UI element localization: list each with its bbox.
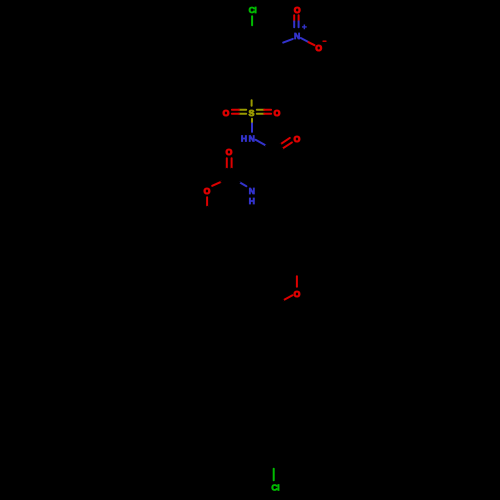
svg-text:O: O — [274, 108, 281, 118]
bond carbamate C to ester O11, O half — [212, 182, 221, 186]
bond carbamate C to ester O11, carbon half — [221, 180, 229, 182]
bond CH2 to ring B top — [297, 190, 299, 211]
bond ring CC4 to Cl14, carbon half — [273, 452, 275, 469]
bond ring CC4 to Cl14, chlorine half — [273, 469, 275, 480]
svg-text:N: N — [294, 31, 300, 41]
nitro N3=O2 double bond, O halves — [294, 15, 298, 21]
svg-text:Cl: Cl — [249, 5, 257, 15]
svg-text:+: + — [302, 22, 307, 32]
bond N3 to ring CA2, N half — [283, 39, 293, 43]
bond N12 to carbamate C, N half — [240, 182, 247, 186]
bond S5 to N8, S half — [251, 119, 253, 124]
amide C=O9 double bond, O halves — [281, 138, 292, 149]
bond O11 to methyl C, carbon half — [206, 207, 208, 223]
bond N8 to amide carbon, N half — [256, 140, 267, 146]
bond amide C to alpha C — [275, 154, 279, 182]
svg-text:N: N — [249, 186, 255, 196]
bond N8 to amide carbon, carbon half — [266, 146, 275, 154]
svg-text:O: O — [294, 134, 301, 144]
bond alpha C to N12, drawn dark — [258, 181, 279, 189]
ring C (4-chlorophenyl) carbon bonds, black on black — [250, 398, 297, 452]
bond O11 to methyl C, O half — [206, 197, 208, 207]
svg-text:O: O — [315, 43, 322, 53]
bond N3 to O4, N half — [301, 38, 308, 42]
svg-text:O: O — [223, 108, 230, 118]
sulfonyl S5=O7 double bond right, S halves — [257, 110, 264, 114]
bond ring CA4 to S5, S half — [251, 100, 253, 106]
bond N12 to carbamate C, carbon half — [229, 180, 239, 182]
svg-text:O: O — [226, 147, 233, 157]
svg-text:O: O — [294, 5, 301, 15]
ring A (4-chloro-3-nitrophenyl) carbon bonds, black on black — [229, 28, 283, 100]
svg-text:H: H — [241, 133, 247, 143]
svg-text:H: H — [249, 196, 255, 206]
charge minus on O4 — [323, 40, 326, 42]
bond O13 to CH2a, carbon half — [270, 300, 283, 306]
bond alpha C to benzylic CH2 — [279, 181, 299, 190]
carbamate C=O10 double bond, carbon halves — [227, 169, 232, 180]
carbamate C=O10 double bond, O halves — [227, 158, 232, 168]
alkyl chain CH2a-Cb-Cc-Cd carbon bonds — [269, 307, 291, 399]
bond S5 to N8, N half — [251, 123, 253, 131]
bond ring CB4 to O13, O half — [296, 276, 298, 286]
bond O13 to CH2a, O half — [283, 295, 292, 300]
sulfonyl S5=O6 double bond left, S halves — [239, 110, 246, 114]
amide C=O9 double bond, carbon halves — [275, 144, 282, 153]
sulfonyl S5=O7 double bond right, O halves — [264, 110, 271, 114]
bond N3 to O4, O half — [309, 42, 315, 45]
nitro N3=O2 double bond, N halves — [294, 21, 298, 27]
ring B (para-substituted phenyl) carbon bonds, black on black — [274, 211, 321, 265]
svg-text:O: O — [294, 289, 301, 299]
svg-text:N: N — [249, 134, 255, 144]
svg-text:S: S — [249, 108, 255, 118]
svg-text:O: O — [204, 186, 211, 196]
bond Cl1 to ring CA1, chlorine half — [251, 16, 253, 25]
sulfonyl S5=O6 double bond left, O halves — [232, 110, 239, 114]
svg-text:Cl: Cl — [271, 483, 279, 493]
bond ring CB4 to O13, carbon half — [296, 265, 298, 276]
